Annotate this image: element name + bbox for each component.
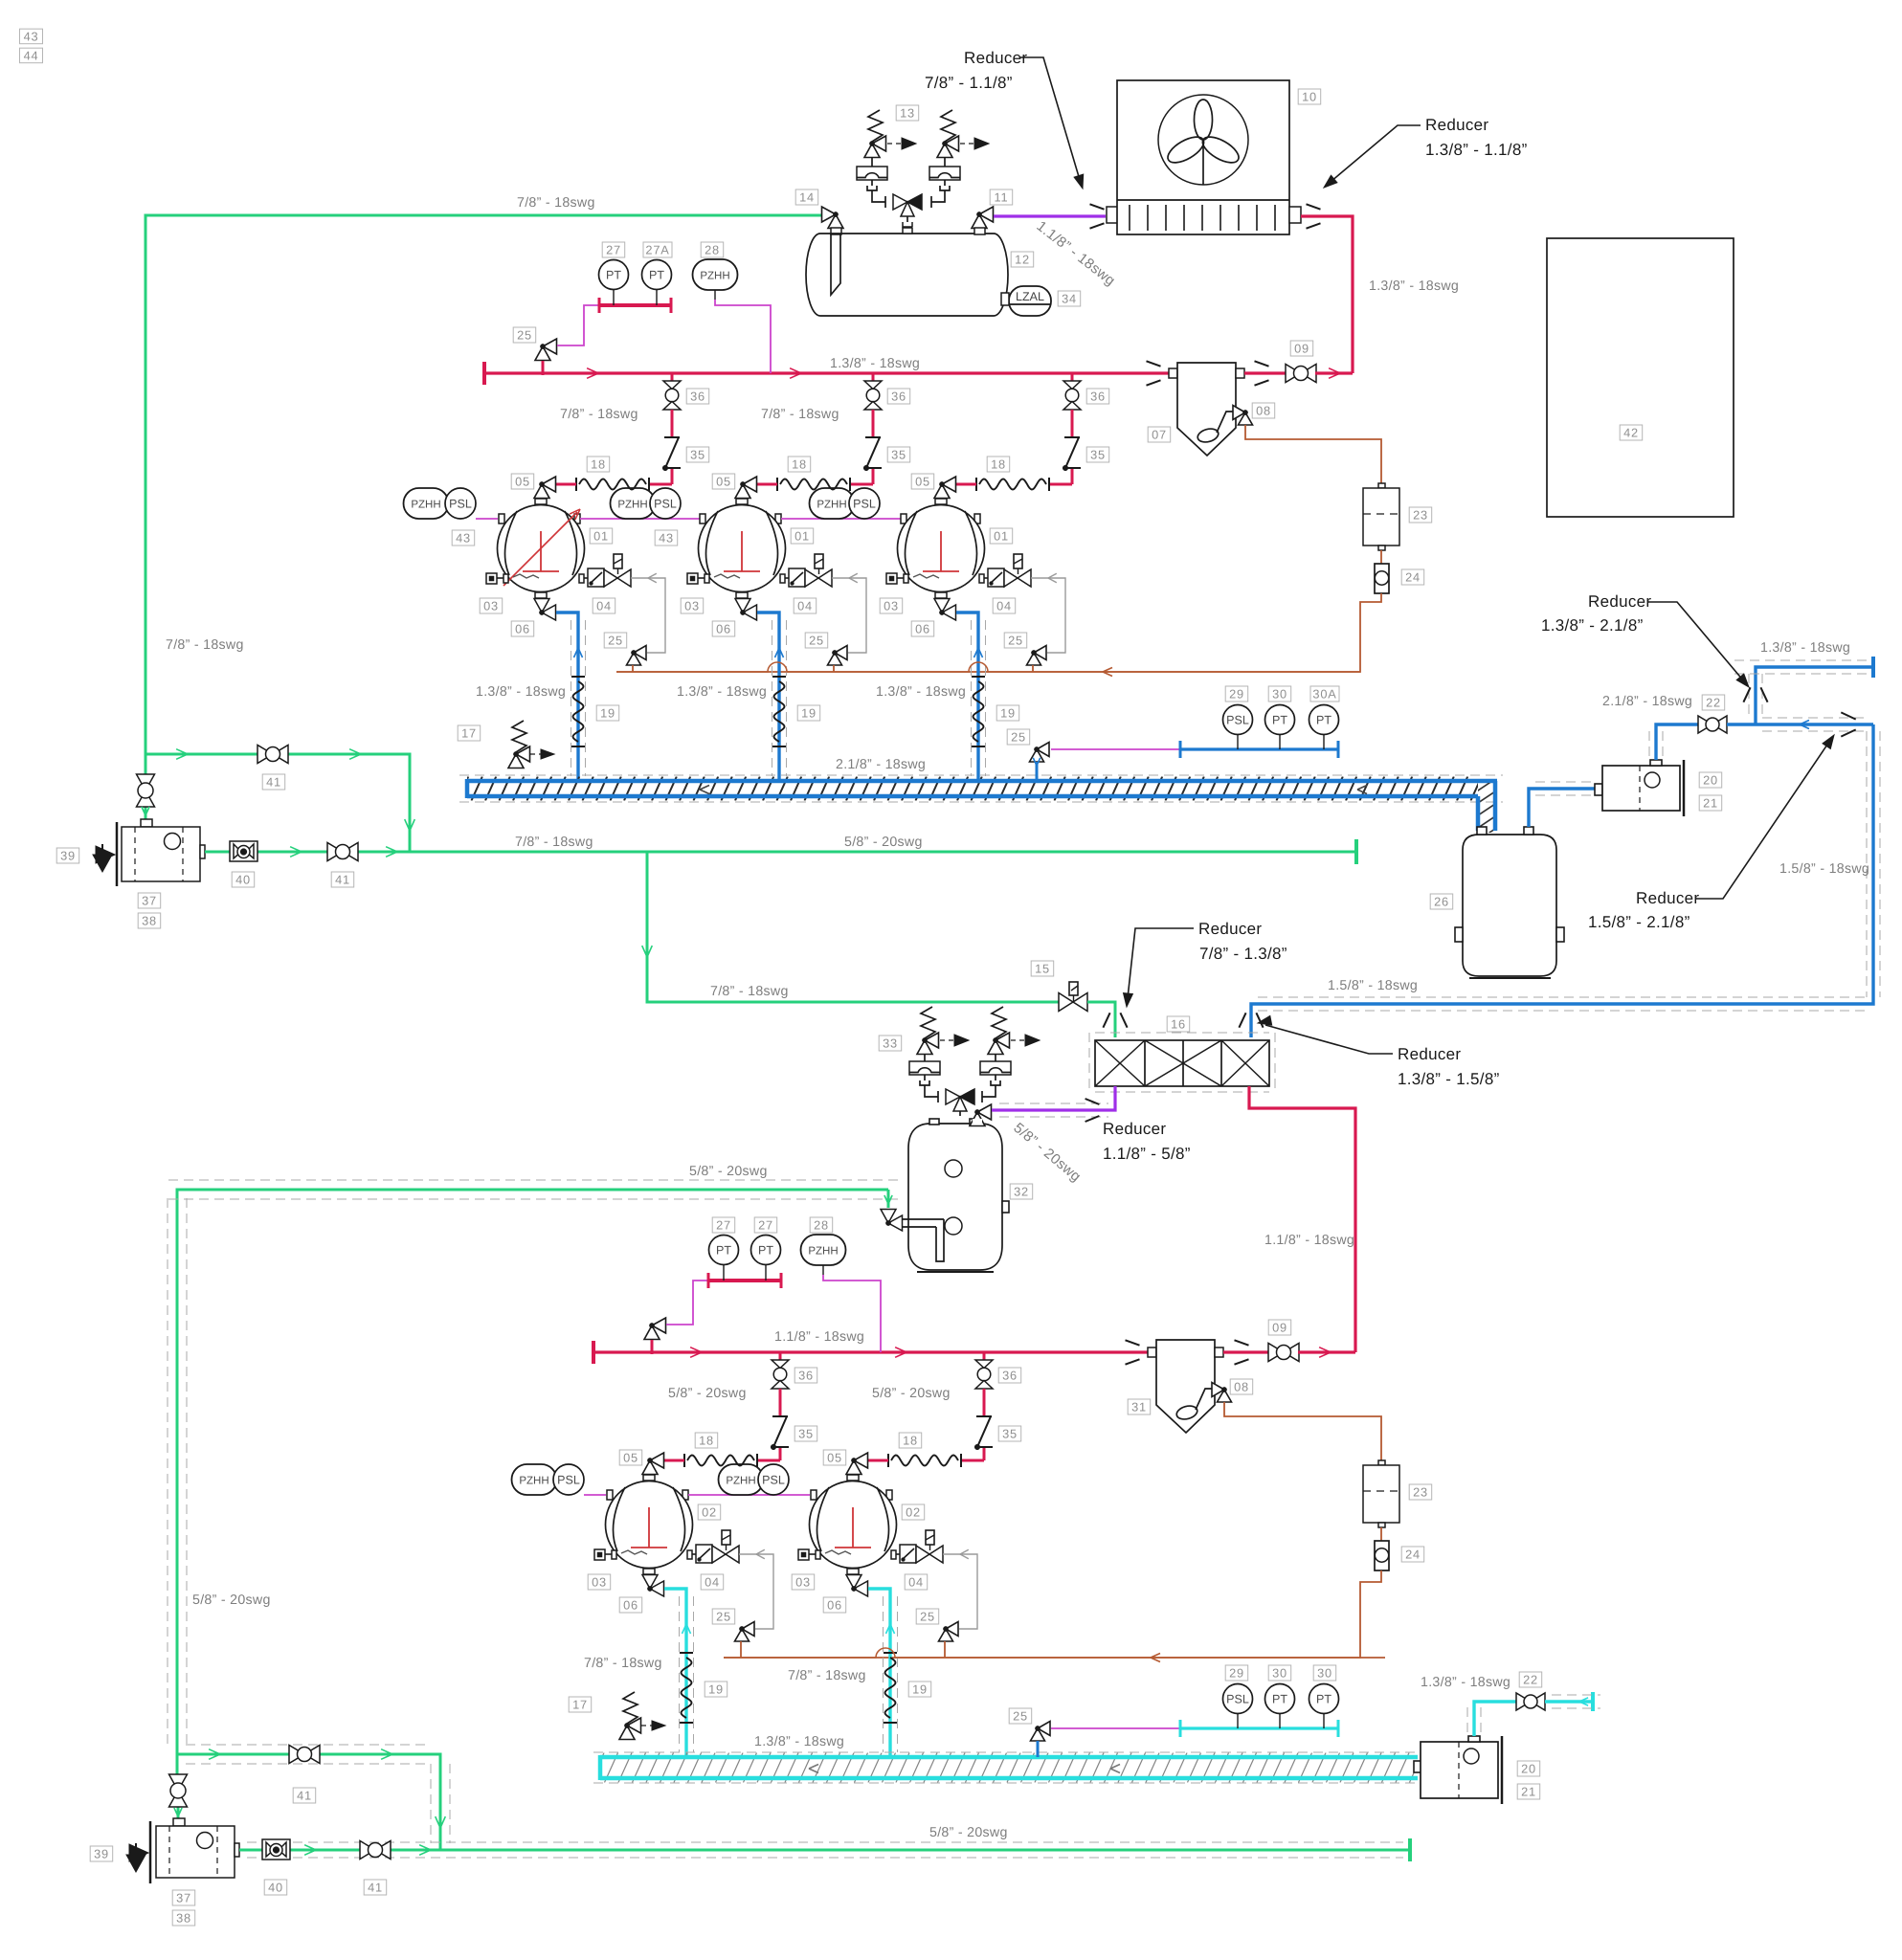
labels 37 38 [138, 893, 161, 908]
blue 1.5/8 into HX [1239, 1013, 1245, 1027]
svg-text:04: 04 [596, 599, 612, 613]
label 04 [794, 598, 817, 613]
svg-text:35: 35 [1002, 1427, 1018, 1441]
PT 30A [1309, 705, 1339, 735]
label 18 [788, 457, 811, 472]
svg-text:35: 35 [891, 448, 906, 462]
pilot line gray [739, 1554, 773, 1629]
svg-text:12: 12 [1015, 253, 1030, 267]
relief pair 13 [868, 110, 883, 142]
suction valve 05 [542, 477, 556, 492]
valve 41 discharge bottom [360, 1841, 375, 1860]
label 04 [701, 1574, 724, 1590]
PSL 29 bottom [1223, 1684, 1253, 1714]
svg-text:25: 25 [920, 1610, 935, 1624]
instrument line 29/30/30A [1037, 743, 1049, 757]
label 39 bottom [90, 1846, 113, 1861]
label 26 [1430, 894, 1453, 909]
svg-text:PZHH: PZHH [726, 1475, 755, 1486]
svg-text:44: 44 [24, 49, 39, 63]
label 03 [588, 1574, 611, 1590]
valve 36 drop [983, 1352, 986, 1360]
svg-text:25: 25 [809, 634, 824, 648]
svg-text:41: 41 [297, 1789, 312, 1803]
PZHH PSL bubbles comp2 [611, 488, 656, 519]
label 12 [1011, 252, 1034, 267]
svg-text:30: 30 [1272, 1666, 1287, 1681]
label 06 [911, 621, 934, 636]
sight glass 24 bottom [1375, 1541, 1389, 1570]
anchor 39 [96, 846, 115, 863]
svg-text:1.1/8” - 18swg: 1.1/8” - 18swg [1264, 1233, 1354, 1248]
three-way valve 33 [925, 1085, 938, 1097]
PT bar [599, 303, 671, 307]
red HX outlet 1.1/8 [1249, 1086, 1355, 1352]
svg-text:20: 20 [1703, 773, 1718, 788]
connection 03 [594, 1549, 605, 1560]
strainer 40 [230, 841, 257, 861]
svg-text:28: 28 [705, 243, 720, 257]
brown to sight glass [1380, 550, 1382, 564]
label 06 [511, 621, 534, 636]
valve 25 header relief [543, 339, 557, 354]
PT 27A [642, 260, 672, 290]
label 03 [792, 1574, 815, 1590]
svg-text:5/8” - 20swg: 5/8” - 20swg [844, 835, 923, 850]
label 07 [1148, 427, 1171, 442]
svg-text:38: 38 [176, 1911, 191, 1926]
svg-text:7/8” - 1.1/8”: 7/8” - 1.1/8” [925, 74, 1013, 92]
label 11 [990, 189, 1013, 205]
svg-text:30A: 30A [1312, 687, 1336, 702]
svg-text:36: 36 [891, 390, 906, 404]
brown pilot stub [632, 665, 634, 672]
PT bar bottom [708, 1279, 781, 1282]
svg-text:40: 40 [235, 873, 251, 887]
riser flex 19 [571, 676, 585, 678]
svg-text:11: 11 [995, 190, 1009, 205]
svg-text:15: 15 [1035, 962, 1050, 976]
label 41 [262, 774, 285, 790]
svg-text:04: 04 [705, 1575, 720, 1590]
svg-text:06: 06 [515, 622, 530, 636]
svg-text:1.3/8” - 18swg: 1.3/8” - 18swg [830, 356, 920, 371]
svg-text:20: 20 [1521, 1762, 1536, 1776]
pump1 discharge green [205, 851, 1356, 854]
intercooler vessel 32 [908, 1124, 1002, 1270]
brown oil line bottom [1224, 1402, 1381, 1462]
svg-text:42: 42 [1623, 426, 1639, 440]
svg-text:01: 01 [593, 529, 609, 544]
label 40 [232, 872, 255, 887]
brown oil distribution bottom [724, 1648, 1360, 1658]
svg-text:03: 03 [483, 599, 499, 613]
svg-text:1.3/8” - 18swg: 1.3/8” - 18swg [1369, 278, 1459, 294]
compressor body [810, 1481, 897, 1569]
svg-text:PSL: PSL [557, 1474, 580, 1487]
valve 35 [976, 1415, 992, 1417]
svg-text:Reducer: Reducer [964, 49, 1027, 67]
valve 36 drop [779, 1352, 782, 1360]
label 14 [795, 189, 818, 205]
svg-text:5/8” - 20swg: 5/8” - 20swg [872, 1386, 951, 1401]
cyan oil pot to valve 22 bottom [1474, 1702, 1516, 1736]
label 42 [1620, 425, 1643, 440]
svg-text:PT: PT [1272, 714, 1287, 727]
brown oil return [616, 593, 1381, 672]
valve 08 bottom [1212, 1383, 1224, 1397]
label 04 [593, 598, 615, 613]
svg-text:1.3/8” - 2.1/8”: 1.3/8” - 2.1/8” [1541, 616, 1644, 635]
svg-text:PZHH: PZHH [519, 1475, 548, 1486]
label 18 [899, 1433, 922, 1448]
valve 35 [664, 436, 680, 438]
svg-text:30: 30 [1272, 687, 1287, 702]
vessel32 feed pipe [903, 1218, 944, 1220]
valve 36 drop [872, 373, 875, 381]
capacity valve 04 [579, 574, 584, 583]
label 03 [480, 598, 503, 613]
svg-text:01: 01 [994, 529, 1009, 544]
magenta to PT bar bottom [666, 1281, 709, 1325]
riser 01 [556, 612, 578, 779]
flex hose 18 [975, 478, 977, 491]
riser flex 19 [680, 1652, 693, 1654]
pilot line gray [631, 578, 665, 653]
svg-text:41: 41 [335, 873, 350, 887]
magenta PZHH to header [714, 290, 716, 300]
svg-text:18: 18 [903, 1434, 918, 1448]
svg-text:02: 02 [906, 1505, 921, 1520]
PT 30b bottom [1309, 1684, 1339, 1714]
svg-text:39: 39 [94, 1847, 109, 1861]
svg-text:PT: PT [649, 269, 664, 282]
valve 36 drop [1071, 373, 1074, 381]
label 24 bottom [1401, 1547, 1424, 1562]
condenser fan unit 10 [1107, 207, 1118, 223]
riser 01c [956, 612, 978, 779]
svg-text:Reducer: Reducer [1636, 889, 1699, 907]
label 25 [805, 633, 828, 648]
connection 03 [798, 1549, 809, 1560]
svg-text:7/8” - 18swg: 7/8” - 18swg [788, 1668, 866, 1683]
valve 36 drop [671, 373, 674, 381]
PT 27 [599, 260, 629, 290]
svg-text:25: 25 [716, 1610, 731, 1624]
oil filter 23 bottom [1378, 1460, 1385, 1465]
label 09 [1290, 341, 1313, 356]
label 10 [1298, 89, 1321, 104]
label 34 [1058, 291, 1081, 306]
svg-text:1.1/8” - 5/8”: 1.1/8” - 5/8” [1103, 1145, 1191, 1163]
svg-text:10: 10 [1302, 90, 1317, 104]
blue oil pot to valve 22 [1656, 724, 1698, 760]
riser 01b [757, 612, 779, 779]
oil pot 20/21 top [1595, 784, 1602, 795]
vessel32 top angle valve [977, 1104, 992, 1120]
blue junction to 1.3/8 top [1727, 723, 1873, 725]
label 36 [887, 389, 910, 404]
valve 41 tee [257, 746, 273, 764]
pump2 green circuit [177, 1754, 440, 1850]
discharge valve 06 [847, 1569, 859, 1574]
relief valve 17 bottom [623, 1692, 638, 1724]
svg-text:03: 03 [884, 599, 899, 613]
purple discharge to condenser [994, 214, 1106, 217]
svg-text:36: 36 [1090, 390, 1106, 404]
svg-text:41: 41 [266, 775, 281, 790]
valve 22 [1698, 716, 1712, 733]
pump1 suction valve [145, 754, 147, 775]
suction valve 05 [743, 477, 757, 492]
relief pair 33 [921, 1007, 935, 1038]
svg-text:22: 22 [1706, 696, 1721, 710]
svg-text:38: 38 [142, 914, 157, 928]
svg-text:33: 33 [883, 1036, 898, 1051]
suction valve 05 [650, 1453, 664, 1468]
svg-text:1.1/8” - 18swg: 1.1/8” - 18swg [774, 1329, 864, 1345]
label 31 [1128, 1399, 1151, 1414]
svg-text:25: 25 [517, 328, 532, 343]
svg-text:24: 24 [1405, 570, 1421, 585]
valve 14 angle [822, 207, 837, 222]
pump suction tee [145, 754, 410, 852]
label 25 [604, 633, 627, 648]
svg-text:1.3/8” - 18swg: 1.3/8” - 18swg [677, 684, 767, 700]
svg-text:03: 03 [592, 1575, 607, 1590]
green to vessel 32 valve [887, 1190, 890, 1208]
capacity valve 04 [979, 574, 984, 583]
label 01 [590, 528, 613, 544]
red after separator + valve 09 [1244, 371, 1287, 374]
pump2 suction valve [176, 1754, 179, 1775]
label 40 bottom [264, 1880, 287, 1895]
svg-text:25: 25 [608, 634, 623, 648]
oil separator 07 [1147, 361, 1161, 366]
svg-text:03: 03 [795, 1575, 811, 1590]
green suction main 7/8 top [145, 215, 821, 754]
label 16 [1167, 1016, 1190, 1032]
svg-text:04: 04 [996, 599, 1012, 613]
riser flex 19 [772, 676, 786, 678]
riser 02 [664, 1589, 686, 1755]
svg-text:1.3/8” - 18swg: 1.3/8” - 18swg [876, 684, 966, 700]
label 36 [998, 1368, 1021, 1383]
discharge valve 06 [535, 592, 547, 598]
oil filter 23 [1378, 483, 1385, 488]
PZHH PSL bubbles comp1 [404, 488, 449, 519]
label 15 [1031, 961, 1054, 976]
svg-text:7/8” - 18swg: 7/8” - 18swg [515, 835, 593, 850]
label 43 comp2 [655, 530, 678, 546]
label 25 [513, 327, 536, 343]
svg-text:PZHH: PZHH [808, 1245, 838, 1257]
suction valve 05 [854, 1453, 868, 1468]
svg-text:19: 19 [1000, 706, 1016, 721]
svg-text:PZHH: PZHH [817, 499, 846, 510]
svg-text:1.3/8” - 18swg: 1.3/8” - 18swg [754, 1734, 844, 1749]
svg-text:04: 04 [797, 599, 813, 613]
brown oil distribution top [616, 662, 1360, 672]
compressor body [898, 505, 985, 592]
svg-text:7/8” - 18swg: 7/8” - 18swg [560, 407, 638, 422]
label 18 [695, 1433, 718, 1448]
svg-text:25: 25 [1011, 730, 1026, 745]
label 19 [996, 705, 1019, 721]
svg-text:PZHH: PZHH [411, 499, 440, 510]
svg-text:27: 27 [758, 1218, 773, 1233]
svg-text:5/8” - 20swg: 5/8” - 20swg [689, 1164, 768, 1179]
label 35 [1086, 447, 1109, 462]
svg-text:PSL: PSL [853, 498, 876, 511]
pump1 37/38 [141, 819, 152, 827]
svg-text:PZHH: PZHH [617, 499, 647, 510]
reducer marks condenser [1090, 204, 1105, 209]
label 33 [879, 1036, 902, 1051]
svg-text:26: 26 [1434, 895, 1449, 909]
label 05 [823, 1450, 846, 1465]
label 19 [705, 1682, 727, 1697]
pump2 37/38 [173, 1818, 185, 1826]
suction valve 05 [942, 477, 956, 492]
capacity valve 04 [891, 1550, 896, 1559]
svg-text:23: 23 [1413, 1485, 1428, 1500]
PSL 29 [1223, 705, 1253, 735]
svg-text:1.3/8” - 18swg: 1.3/8” - 18swg [1421, 1675, 1510, 1690]
valve 41 tee bottom [289, 1746, 304, 1764]
connection 03 [886, 573, 897, 584]
valve 35 [865, 436, 881, 438]
svg-text:Reducer: Reducer [1425, 116, 1488, 134]
svg-text:7/8” - 18swg: 7/8” - 18swg [584, 1656, 662, 1671]
svg-text:35: 35 [690, 448, 705, 462]
svg-text:18: 18 [591, 457, 606, 472]
svg-text:37: 37 [142, 894, 157, 908]
label 02 [902, 1504, 925, 1520]
PZHH PSL bubbles bcomp2 [719, 1464, 764, 1495]
flex hose 18 [575, 478, 577, 491]
label 04 [905, 1574, 928, 1590]
capacity valve 04 [780, 574, 785, 583]
label 24 [1401, 569, 1424, 585]
label 06 [619, 1597, 642, 1613]
label 23 [1409, 507, 1432, 523]
svg-text:5/8” - 20swg: 5/8” - 20swg [192, 1592, 271, 1608]
discharge valve 06 [935, 592, 947, 598]
svg-text:21: 21 [1703, 796, 1718, 811]
ref box 44 [20, 48, 43, 62]
label 22 bottom [1519, 1672, 1542, 1687]
label 32 [1010, 1184, 1033, 1199]
svg-text:18: 18 [699, 1434, 714, 1448]
sight glass 24 [1375, 564, 1389, 593]
riser 02b [868, 1589, 890, 1755]
svg-text:03: 03 [684, 599, 700, 613]
label 22 [1702, 695, 1725, 710]
magenta instrument link comps bottom [584, 1494, 606, 1496]
discharge valve 06 [643, 1569, 655, 1574]
flex hose 18 [683, 1454, 685, 1467]
purple HX to vessel 32 [992, 1086, 1115, 1110]
svg-text:16: 16 [1171, 1017, 1186, 1032]
ref box 43 [20, 29, 43, 44]
label 02 [698, 1504, 721, 1520]
label 25 [712, 1609, 735, 1624]
riser flex 19 [884, 1652, 897, 1654]
reducer marks 1.5/8-2.1/8 [1841, 712, 1855, 719]
svg-text:41: 41 [368, 1881, 383, 1895]
svg-text:43: 43 [659, 531, 674, 546]
valve 41 discharge [327, 843, 343, 861]
svg-text:31: 31 [1131, 1400, 1147, 1414]
green 5/8 long line bottom [177, 1190, 888, 1754]
three-way valve 13 [872, 190, 885, 202]
pilot line gray [943, 1554, 977, 1629]
flex hose 18 [776, 478, 778, 491]
label 01 [990, 528, 1013, 544]
svg-text:7/8” - 1.3/8”: 7/8” - 1.3/8” [1199, 945, 1287, 963]
svg-text:30: 30 [1317, 1666, 1332, 1681]
compressor body [699, 505, 786, 592]
svg-text:27A: 27A [645, 243, 669, 257]
svg-text:5/8” - 20swg: 5/8” - 20swg [929, 1825, 1008, 1840]
svg-text:05: 05 [515, 475, 530, 489]
label 01 [791, 528, 814, 544]
label 05 [712, 474, 735, 489]
brown oil return bottom [724, 1570, 1381, 1658]
labels 37 38 bottom [172, 1890, 195, 1905]
svg-text:1.3/8” - 18swg: 1.3/8” - 18swg [1760, 640, 1850, 656]
label 19 [797, 705, 820, 721]
svg-text:22: 22 [1523, 1673, 1538, 1687]
labels 20 21 bottom [1517, 1761, 1540, 1776]
svg-text:02: 02 [702, 1505, 717, 1520]
label 35 [686, 447, 709, 462]
svg-text:35: 35 [1090, 448, 1106, 462]
svg-text:39: 39 [60, 849, 76, 863]
svg-text:Reducer: Reducer [1588, 592, 1651, 611]
label 05 [619, 1450, 642, 1465]
green drop to valve 15 [647, 852, 1060, 1002]
svg-text:28: 28 [814, 1218, 829, 1233]
label 25 [916, 1609, 939, 1624]
svg-text:36: 36 [798, 1369, 814, 1383]
svg-text:PT: PT [1272, 1693, 1287, 1706]
svg-text:40: 40 [268, 1881, 283, 1895]
svg-text:04: 04 [908, 1575, 924, 1590]
svg-text:PSL: PSL [1226, 714, 1249, 727]
reducer marks 7/8-1.3/8 [1103, 1013, 1109, 1027]
svg-text:19: 19 [912, 1682, 928, 1697]
label 43 comp1 [452, 530, 475, 546]
label 41 [331, 872, 354, 887]
label 19 [596, 705, 619, 721]
svg-text:LZAL: LZAL [1016, 290, 1044, 303]
svg-text:1.3/8” - 1.1/8”: 1.3/8” - 1.1/8” [1425, 141, 1528, 159]
svg-text:18: 18 [792, 457, 807, 472]
svg-text:25: 25 [1013, 1709, 1028, 1724]
brown pilot stub [944, 1641, 946, 1658]
svg-text:PT: PT [606, 269, 621, 282]
label 35 [998, 1426, 1021, 1441]
svg-text:08: 08 [1234, 1380, 1249, 1394]
svg-text:01: 01 [794, 529, 810, 544]
svg-text:7/8” - 18swg: 7/8” - 18swg [166, 637, 244, 653]
suction accumulator 26 [1463, 835, 1556, 976]
svg-text:2.1/8” - 18swg: 2.1/8” - 18swg [1602, 694, 1692, 709]
svg-text:18: 18 [991, 457, 1006, 472]
svg-text:PZHH: PZHH [700, 270, 729, 281]
